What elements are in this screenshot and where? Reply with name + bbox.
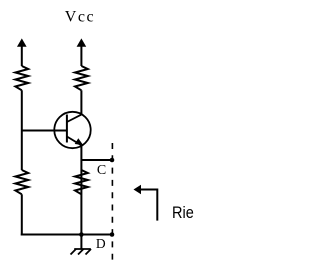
wire base lead xyxy=(22,130,67,132)
node C dot xyxy=(110,158,115,163)
wire emitter rail (circle to bottom wire) xyxy=(80,145,82,234)
Rie arrow head xyxy=(134,185,142,195)
resistor upper-left xyxy=(15,66,28,90)
wire left rail upper (resistor to lower resistor) xyxy=(21,90,23,170)
svg-text:Rie: Rie xyxy=(172,204,194,222)
svg-text:Vcc: Vcc xyxy=(65,9,95,26)
node D dot xyxy=(110,232,115,237)
ground stub xyxy=(80,235,82,250)
wire bottom xyxy=(21,234,112,236)
wire collector (resistor to circle) xyxy=(80,90,82,114)
Rie arrow vertical xyxy=(156,189,158,221)
resistor lower-left xyxy=(15,170,28,194)
resistor upper-right xyxy=(75,66,88,90)
transistor Q1 base bar xyxy=(66,115,68,143)
Vcc arrow left xyxy=(18,39,27,66)
svg-text:C: C xyxy=(97,163,106,178)
ground bar xyxy=(74,248,91,250)
junction dot emitter/bottom xyxy=(79,232,84,237)
transistor Q1 circle xyxy=(54,112,90,148)
transistor Q1 emitter diagonal xyxy=(67,137,82,146)
svg-text:D: D xyxy=(96,236,106,251)
ground hatch slashes xyxy=(71,249,92,255)
wire to node C xyxy=(81,159,112,161)
transistor Q1 emitter arrowhead xyxy=(75,138,84,145)
dashed boundary line xyxy=(111,143,113,260)
Rie arrow horizontal xyxy=(140,189,157,191)
Vcc arrow right xyxy=(77,39,86,66)
resistor lower-right xyxy=(75,170,88,194)
transistor Q1 collector diagonal xyxy=(67,115,82,122)
wire left rail lower xyxy=(21,194,23,235)
